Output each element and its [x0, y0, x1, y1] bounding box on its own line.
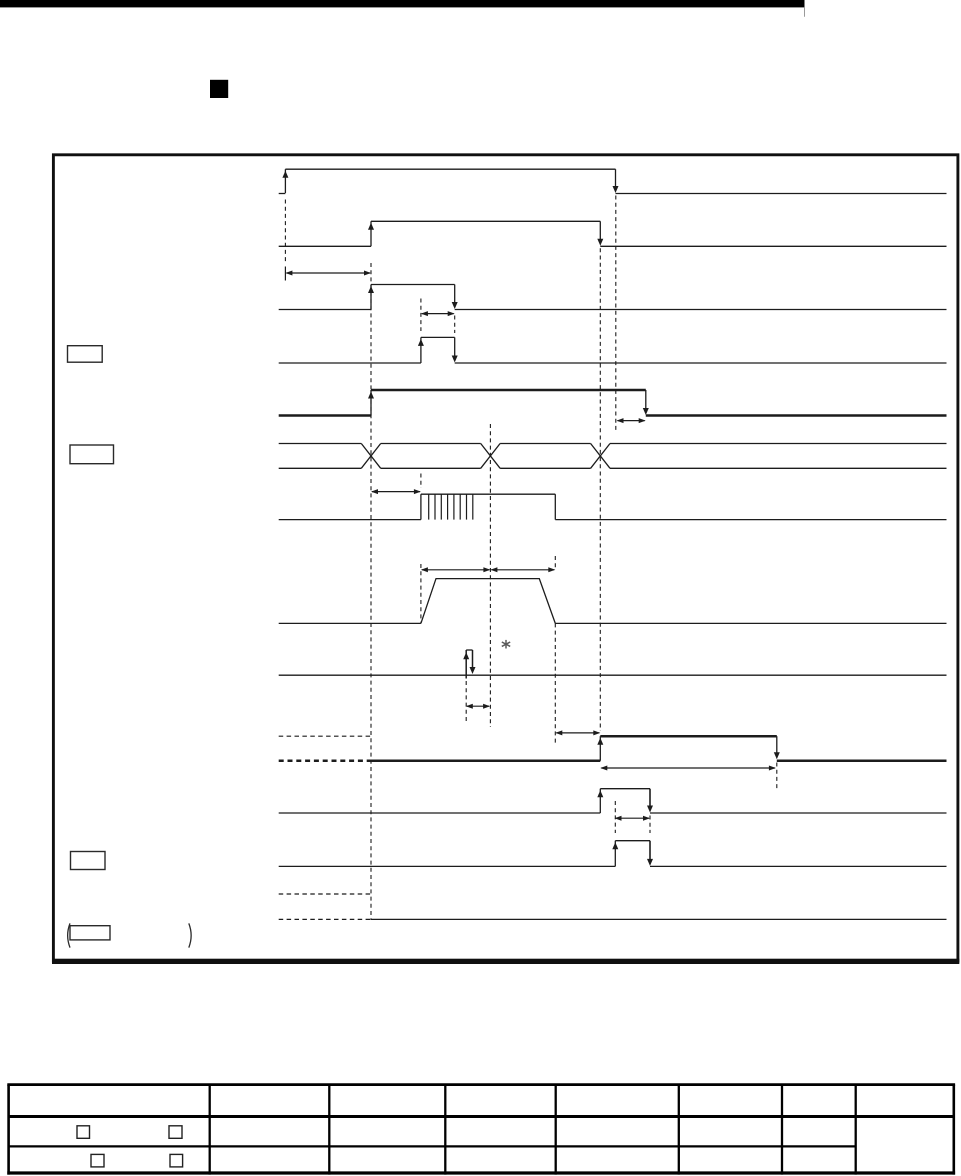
dimension M2 arrow — [422, 313, 454, 315]
opening parenthesis — [68, 923, 70, 947]
row4 pulse falling edge — [454, 337, 456, 357]
dimension M6 arrow — [491, 569, 554, 571]
row7 rising edge — [420, 494, 422, 519]
dimension M9 arrow — [601, 767, 775, 769]
row7 falling edge — [554, 494, 556, 519]
row13 dashed high left — [279, 893, 371, 895]
signal label box 3 — [71, 852, 106, 870]
row3 high level — [371, 284, 455, 286]
row2 high level — [371, 220, 600, 222]
row4 baseline left — [279, 362, 421, 364]
section title bullet square — [210, 80, 228, 98]
signal label box 2 — [70, 445, 114, 464]
row11 high level — [600, 788, 650, 790]
row7 pulse-train hatch lines — [428, 494, 430, 519]
row12 pulse falling edge — [649, 841, 651, 861]
row1 falling edge — [615, 169, 617, 187]
closing parenthesis — [189, 923, 191, 947]
row8 baseline right — [555, 622, 946, 624]
table top border — [7, 1083, 955, 1086]
dimension M8 arrow — [556, 732, 599, 734]
row12 baseline left — [279, 865, 616, 867]
row9 spike top — [466, 649, 472, 651]
data bus transition crossings — [361, 444, 380, 469]
table row3 checkbox 1 — [91, 1154, 104, 1167]
row2 baseline left — [279, 245, 371, 247]
dimension M10 arrow — [616, 817, 650, 819]
row10 dashed high left — [279, 735, 371, 737]
row4 pulse rising edge — [420, 337, 422, 363]
dashed vertical at x455 short — [454, 316, 456, 334]
table row2 checkbox 1 — [77, 1126, 90, 1139]
row1 baseline right — [616, 193, 947, 195]
dashed vertical at x421 above row7 rise — [420, 474, 422, 489]
row11 baseline right — [650, 812, 947, 814]
row1 baseline left stub — [279, 193, 286, 195]
row1 high level — [285, 168, 615, 170]
signal label box 4 — [70, 926, 110, 940]
row10 thick low level — [371, 760, 600, 763]
dashed vertical at x615 lower — [614, 801, 616, 833]
row12 pulse rising edge — [614, 841, 616, 867]
dimension M5 arrow — [422, 569, 490, 571]
row10 falling edge — [776, 736, 778, 753]
row2 rising edge — [370, 221, 372, 246]
table header bottom border — [9, 1115, 954, 1118]
dimension M4 arrow — [372, 491, 420, 493]
row12 baseline right — [650, 865, 947, 867]
row9 baseline left — [279, 674, 467, 676]
table vertical borders — [7, 1085, 10, 1175]
table row divider (stops at merged last column) — [9, 1145, 856, 1147]
figure frame bottom edge (thicker) — [52, 959, 959, 964]
dashed vertical at x421 lower — [420, 564, 422, 623]
table bottom border — [7, 1171, 955, 1174]
row5 thick baseline left — [279, 414, 371, 417]
row5 thick baseline right — [646, 414, 947, 417]
row4 baseline right — [455, 362, 947, 364]
data bus top line — [279, 443, 362, 445]
row11 falling edge — [649, 789, 651, 807]
dashed vertical at x421 upper — [420, 299, 422, 332]
dashed vertical at row1 rise — [284, 200, 286, 265]
dashed vertical at x600 — [599, 248, 601, 731]
dimension M1 arrow — [286, 272, 370, 274]
asterisk note mark — [505, 640, 507, 649]
row10 thick dashed low left — [279, 760, 371, 763]
long dashed vertical at x371 — [370, 263, 372, 920]
dashed vertical at x555 upper — [554, 556, 556, 570]
row9 spike falling edge — [472, 650, 474, 668]
row3 baseline left — [279, 309, 371, 311]
row8 baseline left — [279, 622, 421, 624]
row13 solid low right — [371, 918, 947, 920]
row1 rising edge — [284, 169, 286, 193]
row12 pulse top — [615, 840, 650, 842]
row5 thick high level — [371, 389, 646, 392]
dimension M1 tick left — [284, 267, 286, 281]
dashed vertical at x555 lower — [554, 623, 556, 745]
row7 high level — [421, 493, 555, 495]
page header black bar — [0, 0, 805, 7]
row5 rising edge — [370, 390, 372, 416]
row7 baseline right — [555, 519, 946, 521]
row2 falling edge — [599, 221, 601, 240]
signal label box 1 — [68, 346, 103, 363]
dashed vertical at row1 fall — [615, 196, 617, 432]
dashed vertical at x650 — [649, 816, 651, 834]
row3 falling edge — [454, 285, 456, 304]
dashed vertical at x490 — [489, 424, 491, 727]
dimension M3 arrow — [618, 420, 645, 422]
row11 baseline left — [279, 812, 601, 814]
figure outer frame — [53, 155, 958, 961]
row5 falling edge — [645, 390, 647, 410]
data bus bottom line — [279, 467, 362, 469]
dashed vertical at x466 — [465, 681, 467, 724]
row10 rising edge — [599, 736, 601, 761]
dimension M7 arrow — [467, 705, 489, 707]
row2 baseline right — [600, 245, 946, 247]
row8 velocity trapezoid — [421, 579, 555, 624]
row4 pulse top — [421, 336, 455, 338]
row7 baseline left — [279, 519, 421, 521]
table row2 checkbox 2 — [169, 1126, 182, 1139]
table row3 checkbox 2 — [170, 1154, 183, 1167]
row11 rising edge — [599, 789, 601, 813]
row3 baseline right — [455, 309, 947, 311]
row9 baseline right — [466, 674, 946, 676]
row13 dashed low left — [279, 918, 371, 920]
row3 rising edge — [370, 285, 372, 310]
row9 spike rising edge — [465, 650, 467, 679]
row10 thick low right — [777, 760, 947, 763]
dashed vertical below row10 fall — [776, 763, 778, 791]
header bar right end tick — [804, 7, 806, 16]
row10 thick high level — [600, 735, 777, 738]
